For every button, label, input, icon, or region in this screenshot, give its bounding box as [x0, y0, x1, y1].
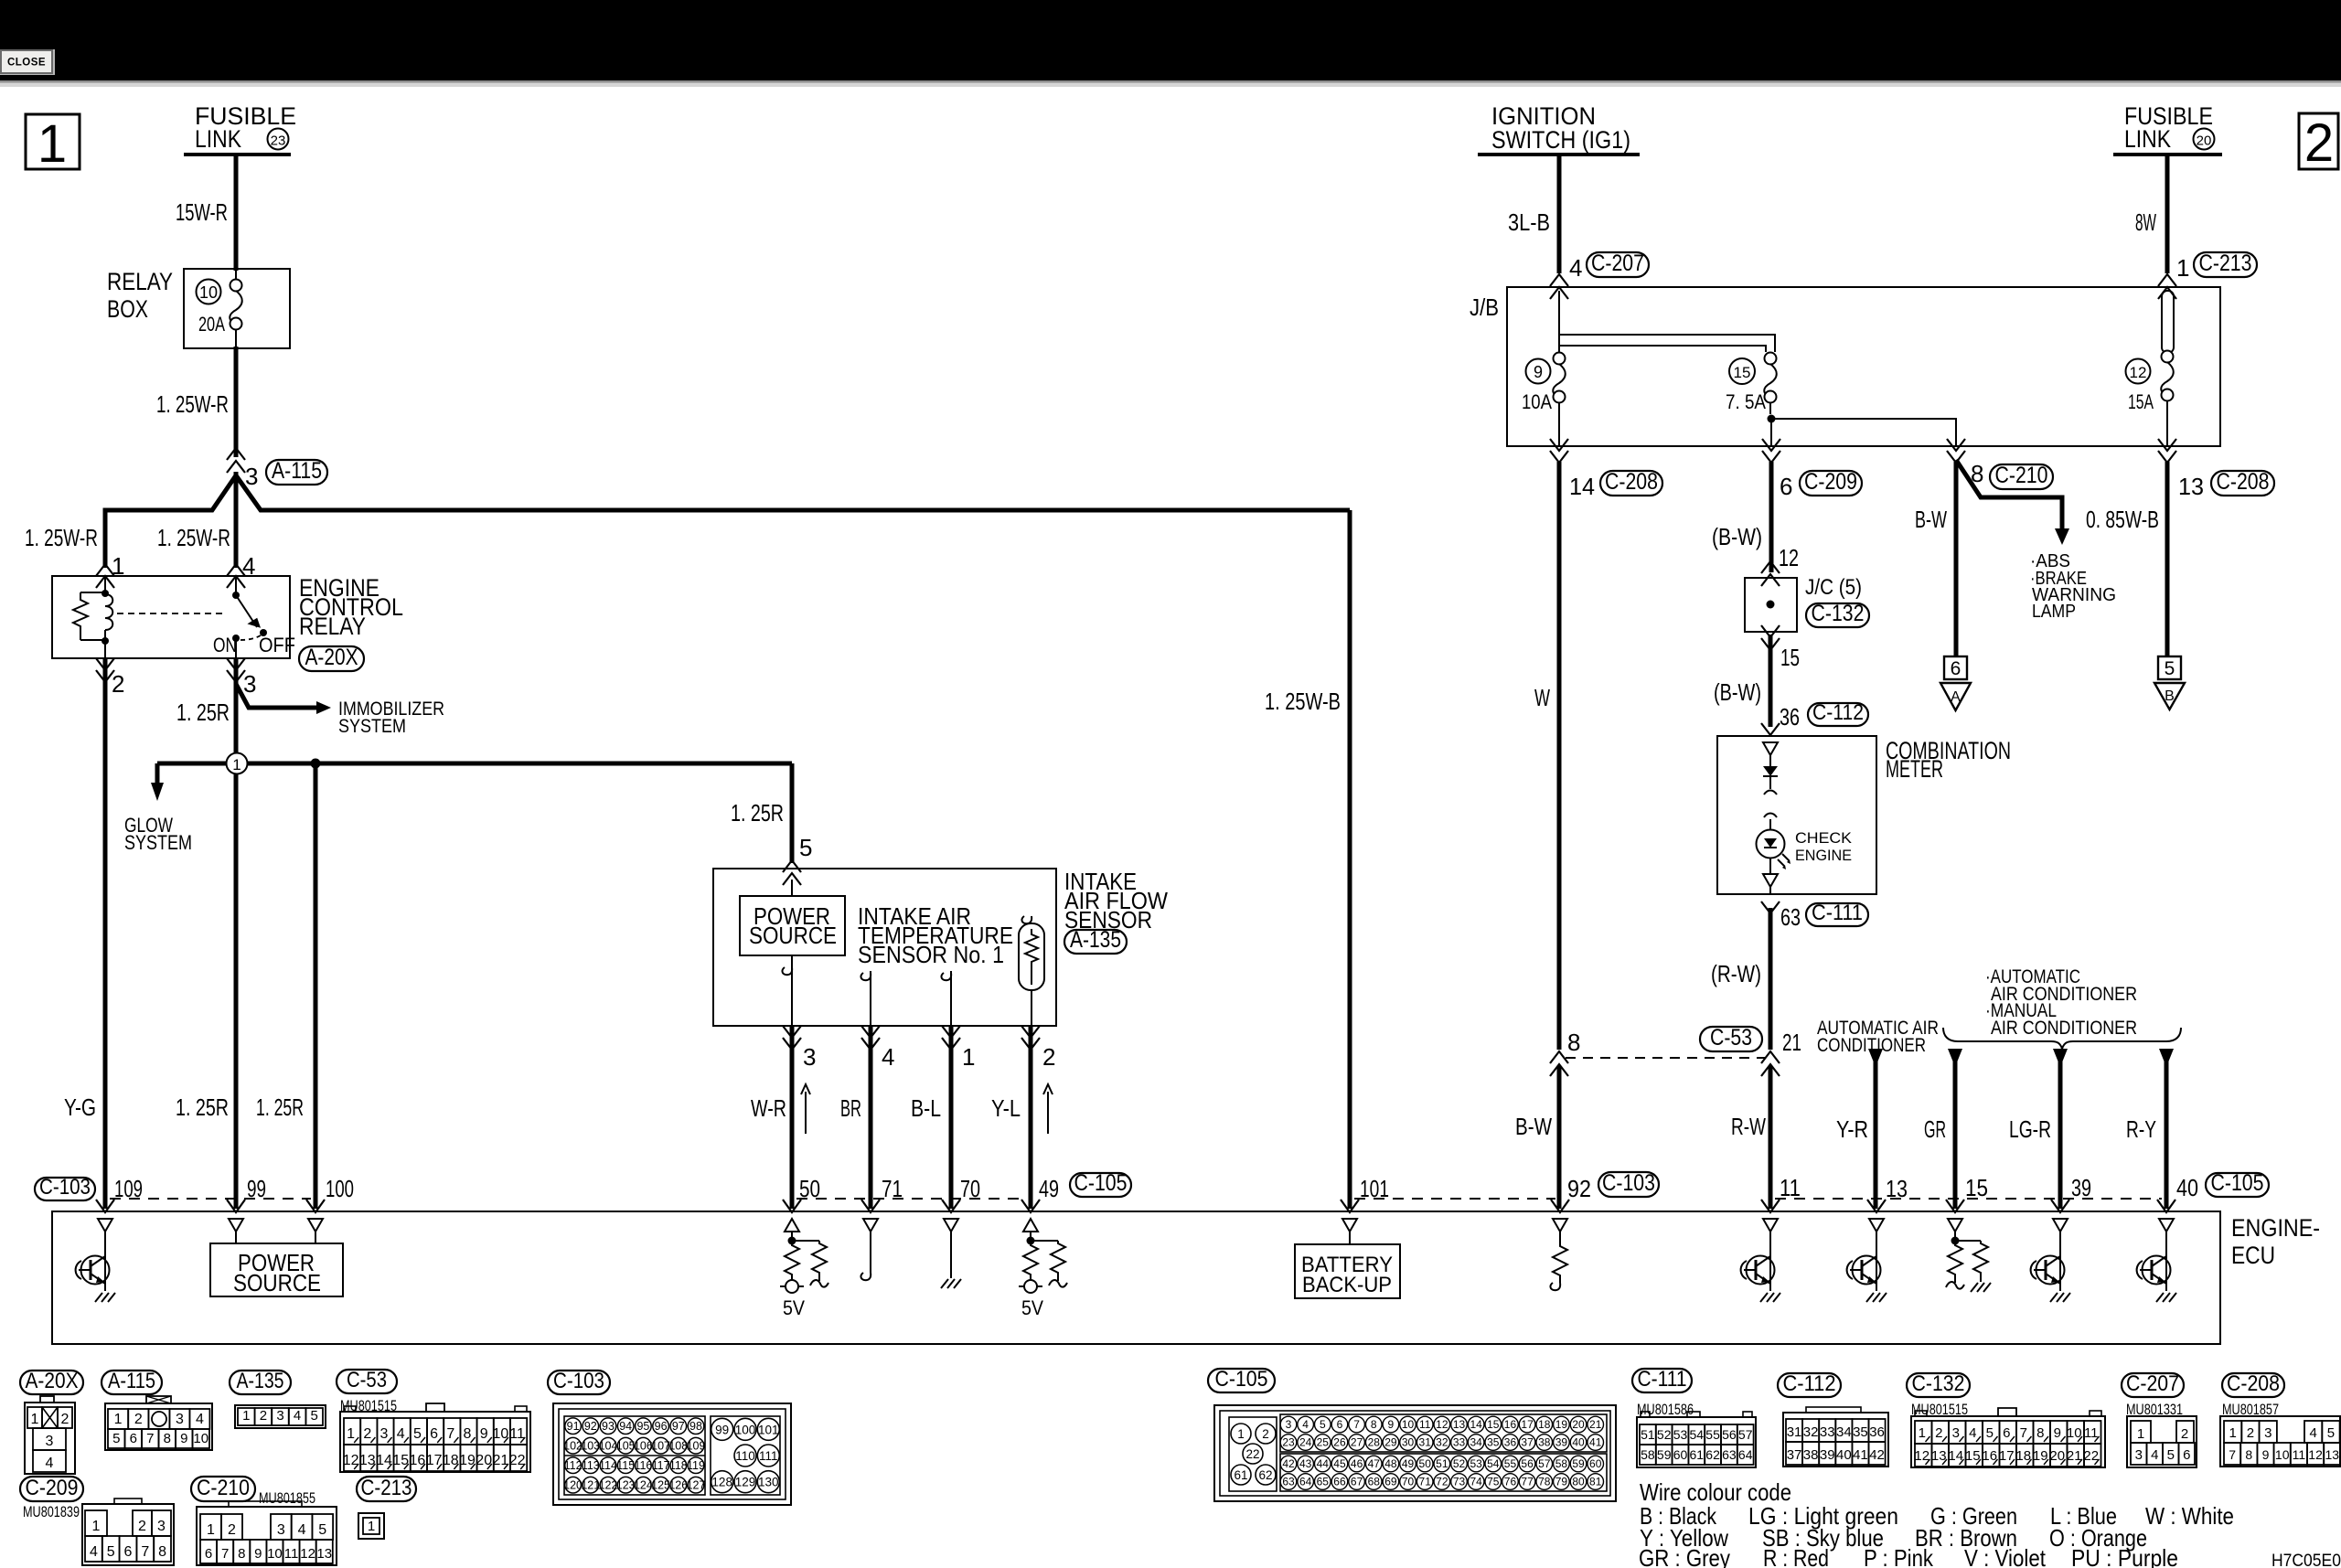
- svg-text:RELAY: RELAY: [107, 268, 173, 295]
- svg-text:PU : Purple: PU : Purple: [2071, 1544, 2178, 1568]
- svg-text:12: 12: [1436, 1418, 1448, 1431]
- svg-text:13: 13: [2178, 473, 2204, 500]
- svg-text:4: 4: [2151, 1447, 2158, 1463]
- svg-text:38: 38: [1538, 1436, 1551, 1449]
- svg-text:RELAY: RELAY: [299, 613, 366, 640]
- svg-text:42: 42: [1869, 1447, 1885, 1463]
- svg-text:31: 31: [1419, 1436, 1432, 1449]
- svg-text:A-135: A-135: [1070, 927, 1121, 953]
- svg-text:2: 2: [2247, 1425, 2254, 1441]
- svg-text:20: 20: [1572, 1418, 1585, 1431]
- svg-text:MU801855: MU801855: [259, 1489, 315, 1507]
- svg-text:56: 56: [1722, 1427, 1737, 1442]
- svg-text:104: 104: [599, 1440, 618, 1453]
- svg-text:36: 36: [1504, 1436, 1517, 1449]
- svg-text:52: 52: [1453, 1457, 1466, 1470]
- svg-text:64: 64: [1299, 1476, 1312, 1488]
- svg-text:60: 60: [1589, 1457, 1602, 1470]
- svg-text:8: 8: [2036, 1425, 2044, 1441]
- svg-text:12: 12: [2130, 364, 2147, 381]
- svg-text:5: 5: [112, 1431, 120, 1446]
- svg-text:4: 4: [46, 1456, 54, 1471]
- svg-text:99: 99: [715, 1423, 729, 1436]
- svg-text:37: 37: [1521, 1436, 1534, 1449]
- svg-text:6: 6: [1951, 658, 1962, 679]
- svg-text:3: 3: [276, 1408, 283, 1424]
- svg-text:11: 11: [1780, 1174, 1801, 1201]
- svg-text:11: 11: [284, 1546, 299, 1562]
- svg-text:C-53: C-53: [1710, 1025, 1752, 1051]
- svg-text:2: 2: [1935, 1425, 1942, 1441]
- svg-text:5: 5: [799, 834, 812, 861]
- svg-text:50: 50: [1419, 1457, 1432, 1470]
- svg-text:50: 50: [799, 1175, 820, 1202]
- svg-text:1: 1: [242, 1408, 250, 1424]
- svg-text:51: 51: [1641, 1427, 1655, 1442]
- svg-text:31: 31: [1787, 1424, 1802, 1440]
- svg-text:1. 25R: 1. 25R: [256, 1093, 304, 1121]
- svg-text:9: 9: [480, 1426, 488, 1442]
- svg-text:5: 5: [311, 1408, 318, 1424]
- svg-text:74: 74: [1470, 1476, 1482, 1488]
- svg-text:MU801839: MU801839: [23, 1503, 80, 1520]
- svg-text:23: 23: [271, 133, 286, 149]
- svg-text:7: 7: [2020, 1425, 2027, 1441]
- svg-text:1. 25W-B: 1. 25W-B: [1265, 688, 1341, 715]
- svg-text:118: 118: [669, 1459, 688, 1472]
- svg-text:24: 24: [1299, 1436, 1312, 1449]
- svg-text:13: 13: [1886, 1175, 1908, 1202]
- svg-text:3: 3: [1952, 1425, 1960, 1441]
- svg-text:63: 63: [1722, 1447, 1737, 1462]
- svg-text:73: 73: [1453, 1476, 1466, 1488]
- svg-text:C-111: C-111: [1812, 901, 1863, 925]
- svg-text:2: 2: [228, 1522, 236, 1538]
- svg-text:9: 9: [2262, 1447, 2270, 1462]
- svg-text:(B-W): (B-W): [1712, 523, 1762, 550]
- svg-text:6: 6: [2003, 1425, 2010, 1441]
- svg-text:117: 117: [652, 1459, 670, 1472]
- svg-text:11: 11: [2084, 1425, 2099, 1441]
- svg-text:92: 92: [1567, 1175, 1591, 1202]
- svg-text:9: 9: [254, 1546, 262, 1562]
- svg-text:B: B: [2165, 688, 2175, 704]
- svg-text:41: 41: [1589, 1436, 1602, 1449]
- svg-text:11: 11: [1419, 1418, 1431, 1431]
- svg-text:5: 5: [318, 1522, 326, 1538]
- svg-text:3: 3: [2135, 1447, 2143, 1463]
- svg-text:109: 109: [114, 1175, 143, 1202]
- svg-text:7: 7: [146, 1431, 154, 1446]
- svg-text:2: 2: [61, 1412, 69, 1427]
- svg-text:H7C05E0: H7C05E0: [2272, 1552, 2341, 1568]
- svg-text:15: 15: [1965, 1174, 1988, 1201]
- svg-text:35: 35: [1487, 1436, 1500, 1449]
- svg-text:C-209: C-209: [1804, 469, 1857, 495]
- svg-text:20A: 20A: [198, 313, 225, 336]
- svg-text:70: 70: [960, 1175, 980, 1202]
- svg-text:A: A: [1951, 689, 1961, 705]
- svg-text:ECU: ECU: [2231, 1242, 2275, 1269]
- svg-text:C-103: C-103: [39, 1175, 91, 1200]
- svg-text:55: 55: [1504, 1457, 1517, 1470]
- svg-text:81: 81: [1589, 1476, 1602, 1488]
- svg-text:51: 51: [1436, 1457, 1448, 1470]
- svg-text:115: 115: [616, 1459, 635, 1472]
- svg-text:32: 32: [1803, 1424, 1819, 1440]
- svg-text:60: 60: [1673, 1447, 1688, 1462]
- svg-text:80: 80: [1572, 1476, 1585, 1488]
- svg-text:12: 12: [1779, 544, 1799, 571]
- svg-text:4: 4: [298, 1522, 306, 1538]
- svg-text:10: 10: [193, 1431, 208, 1446]
- svg-text:C-209: C-209: [26, 1476, 79, 1500]
- svg-text:65: 65: [1317, 1476, 1330, 1488]
- svg-text:C-105: C-105: [1215, 1367, 1268, 1392]
- svg-text:25: 25: [1317, 1436, 1330, 1449]
- svg-text:33: 33: [1453, 1436, 1466, 1449]
- svg-text:3: 3: [277, 1522, 285, 1538]
- svg-text:SENSOR No. 1: SENSOR No. 1: [858, 941, 1004, 968]
- svg-text:2: 2: [134, 1412, 143, 1427]
- svg-text:49: 49: [1402, 1457, 1415, 1470]
- svg-text:10: 10: [267, 1546, 283, 1562]
- svg-text:10: 10: [199, 283, 218, 302]
- svg-text:10A: 10A: [1522, 390, 1552, 413]
- svg-text:A-115: A-115: [108, 1369, 155, 1393]
- svg-text:6: 6: [430, 1426, 438, 1442]
- svg-text:40: 40: [1836, 1447, 1852, 1463]
- svg-text:79: 79: [1555, 1476, 1568, 1488]
- svg-text:101: 101: [1360, 1175, 1389, 1202]
- svg-text:71: 71: [1419, 1476, 1432, 1488]
- svg-text:107: 107: [651, 1440, 670, 1453]
- svg-text:ENGINE: ENGINE: [1795, 847, 1852, 864]
- svg-text:121: 121: [581, 1479, 600, 1492]
- svg-text:12: 12: [2308, 1447, 2323, 1462]
- svg-text:B-L: B-L: [911, 1094, 941, 1122]
- svg-text:15W-R: 15W-R: [176, 198, 228, 226]
- svg-text:5: 5: [107, 1544, 115, 1560]
- svg-text:C-112: C-112: [1783, 1371, 1836, 1396]
- svg-text:0. 85W-B: 0. 85W-B: [2086, 506, 2159, 533]
- svg-text:92: 92: [584, 1420, 597, 1433]
- svg-text:39: 39: [2071, 1174, 2091, 1201]
- svg-text:1. 25R: 1. 25R: [176, 1093, 229, 1121]
- svg-text:5: 5: [2327, 1425, 2335, 1441]
- svg-text:2: 2: [1042, 1043, 1055, 1071]
- svg-text:C-105: C-105: [1074, 1170, 1128, 1196]
- svg-text:1: 1: [962, 1043, 975, 1071]
- svg-text:15: 15: [1734, 364, 1751, 381]
- svg-text:BR: BR: [840, 1094, 861, 1122]
- svg-text:9: 9: [2054, 1425, 2061, 1441]
- svg-text:2: 2: [260, 1408, 267, 1424]
- svg-text:53: 53: [1470, 1457, 1482, 1470]
- svg-text:1: 1: [1919, 1425, 1926, 1441]
- svg-text:8: 8: [158, 1544, 166, 1560]
- svg-text:9: 9: [180, 1431, 187, 1446]
- svg-text:9: 9: [1388, 1418, 1395, 1431]
- svg-text:13: 13: [2325, 1447, 2340, 1462]
- svg-text:5: 5: [2167, 1447, 2175, 1463]
- svg-text:23: 23: [1282, 1436, 1295, 1449]
- svg-text:LINK: LINK: [2124, 125, 2171, 153]
- svg-text:102: 102: [563, 1440, 583, 1453]
- svg-text:116: 116: [634, 1459, 652, 1472]
- svg-text:LAMP: LAMP: [2032, 602, 2076, 622]
- svg-text:1: 1: [232, 756, 241, 773]
- svg-text:AIR CONDITIONER: AIR CONDITIONER: [1991, 1018, 2137, 1039]
- svg-text:8: 8: [1371, 1418, 1377, 1431]
- svg-text:A-115: A-115: [272, 458, 322, 484]
- svg-text:C-132: C-132: [1812, 601, 1865, 626]
- svg-text:METER: METER: [1886, 755, 1943, 783]
- svg-text:98: 98: [689, 1420, 702, 1433]
- svg-text:MU801586: MU801586: [1637, 1401, 1694, 1418]
- svg-text:CHECK: CHECK: [1795, 829, 1853, 847]
- svg-text:55: 55: [1705, 1427, 1720, 1442]
- svg-text:28: 28: [1368, 1436, 1381, 1449]
- svg-text:4: 4: [1569, 254, 1582, 282]
- svg-text:44: 44: [1317, 1457, 1330, 1470]
- svg-text:39: 39: [1555, 1436, 1568, 1449]
- svg-text:75: 75: [1487, 1476, 1500, 1488]
- svg-text:54: 54: [1487, 1457, 1500, 1470]
- svg-text:47: 47: [1368, 1457, 1381, 1470]
- svg-text:(B-W): (B-W): [1714, 678, 1761, 706]
- svg-text:68: 68: [1368, 1476, 1381, 1488]
- svg-text:C-112: C-112: [1812, 700, 1864, 725]
- svg-text:10: 10: [1402, 1418, 1415, 1431]
- svg-text:38: 38: [1803, 1447, 1819, 1463]
- svg-text:1. 25R: 1. 25R: [731, 799, 784, 827]
- svg-text:1. 25R: 1. 25R: [176, 699, 230, 726]
- svg-text:14: 14: [1470, 1418, 1482, 1431]
- svg-text:4: 4: [1969, 1425, 1976, 1441]
- svg-text:6: 6: [1780, 473, 1792, 500]
- svg-text:34: 34: [1836, 1424, 1852, 1440]
- svg-text:17: 17: [1521, 1418, 1534, 1431]
- svg-text:7: 7: [2229, 1447, 2236, 1462]
- svg-text:67: 67: [1351, 1476, 1363, 1488]
- svg-text:7: 7: [221, 1546, 229, 1562]
- svg-text:3: 3: [243, 670, 256, 698]
- svg-text:33: 33: [1820, 1424, 1835, 1440]
- svg-text:1: 1: [1237, 1427, 1245, 1441]
- svg-text:128: 128: [711, 1476, 732, 1489]
- svg-text:1: 1: [207, 1522, 215, 1538]
- svg-text:C-207: C-207: [1591, 251, 1644, 276]
- svg-text:95: 95: [636, 1420, 649, 1433]
- svg-text:39: 39: [1820, 1447, 1835, 1463]
- svg-text:63: 63: [1282, 1476, 1295, 1488]
- svg-text:43: 43: [1299, 1457, 1312, 1470]
- svg-text:R : Red: R : Red: [1763, 1544, 1829, 1568]
- svg-text:7: 7: [1353, 1418, 1360, 1431]
- svg-text:6: 6: [124, 1544, 133, 1560]
- svg-text:59: 59: [1657, 1447, 1672, 1462]
- svg-text:129: 129: [735, 1476, 756, 1489]
- svg-text:J/C (5): J/C (5): [1805, 575, 1862, 600]
- svg-text:5: 5: [413, 1426, 422, 1442]
- svg-text:3L-B: 3L-B: [1508, 208, 1550, 236]
- svg-text:30: 30: [1402, 1436, 1415, 1449]
- svg-text:20: 20: [2197, 133, 2212, 149]
- svg-text:4: 4: [90, 1544, 98, 1560]
- svg-text:29: 29: [1384, 1436, 1397, 1449]
- svg-text:A-135: A-135: [237, 1369, 284, 1393]
- svg-text:106: 106: [634, 1440, 653, 1453]
- svg-text:6: 6: [2183, 1447, 2190, 1463]
- svg-text:36: 36: [1780, 703, 1800, 731]
- svg-text:49: 49: [1039, 1175, 1059, 1202]
- svg-text:CLOSE: CLOSE: [7, 58, 46, 69]
- svg-text:59: 59: [1572, 1457, 1585, 1470]
- svg-text:46: 46: [1351, 1457, 1363, 1470]
- svg-text:C-207: C-207: [2126, 1371, 2179, 1396]
- svg-text:111: 111: [759, 1449, 778, 1463]
- svg-text:4: 4: [397, 1426, 405, 1442]
- svg-text:66: 66: [1333, 1476, 1346, 1488]
- svg-text:127: 127: [687, 1479, 706, 1492]
- svg-text:C-103: C-103: [1602, 1170, 1655, 1196]
- svg-text:78: 78: [1538, 1476, 1551, 1488]
- svg-text:2: 2: [112, 670, 124, 698]
- svg-text:10: 10: [2275, 1447, 2290, 1462]
- svg-text:4: 4: [882, 1043, 894, 1071]
- svg-text:BOX: BOX: [107, 295, 148, 323]
- svg-text:3: 3: [157, 1519, 166, 1534]
- svg-text:1: 1: [37, 114, 67, 174]
- svg-text:13: 13: [316, 1546, 332, 1562]
- svg-text:124: 124: [634, 1479, 653, 1492]
- svg-text:14: 14: [1569, 473, 1595, 500]
- svg-text:SWITCH (IG1): SWITCH (IG1): [1491, 126, 1630, 154]
- svg-text:3: 3: [1286, 1418, 1292, 1431]
- svg-text:P : Pink: P : Pink: [1864, 1544, 1934, 1568]
- svg-text:5V: 5V: [783, 1296, 805, 1319]
- svg-text:LINK: LINK: [195, 125, 241, 153]
- svg-text:4: 4: [294, 1408, 301, 1424]
- svg-text:54: 54: [1690, 1427, 1705, 1442]
- svg-text:SYSTEM: SYSTEM: [124, 831, 192, 854]
- svg-text:8: 8: [464, 1426, 472, 1442]
- svg-text:GR: GR: [1924, 1115, 1946, 1143]
- svg-text:R-Y: R-Y: [2126, 1115, 2156, 1143]
- svg-text:4: 4: [1302, 1418, 1309, 1431]
- svg-text:37: 37: [1787, 1447, 1802, 1463]
- svg-text:4: 4: [196, 1412, 204, 1427]
- svg-text:8: 8: [164, 1431, 171, 1446]
- svg-text:SOURCE: SOURCE: [749, 922, 837, 949]
- svg-text:A-20X: A-20X: [305, 645, 358, 670]
- svg-text:LG-R: LG-R: [2009, 1115, 2051, 1143]
- svg-text:8: 8: [238, 1546, 245, 1562]
- svg-text:93: 93: [602, 1420, 615, 1433]
- svg-text:91: 91: [567, 1420, 580, 1433]
- svg-text:3: 3: [2264, 1425, 2272, 1441]
- svg-text:35: 35: [1853, 1424, 1868, 1440]
- svg-text:5: 5: [2165, 658, 2175, 679]
- svg-text:7: 7: [446, 1426, 454, 1442]
- svg-text:1: 1: [31, 1412, 39, 1427]
- svg-text:6: 6: [130, 1431, 137, 1446]
- svg-text:100: 100: [735, 1423, 756, 1436]
- svg-text:5: 5: [1986, 1425, 1994, 1441]
- svg-text:3: 3: [380, 1426, 389, 1442]
- svg-text:57: 57: [1538, 1457, 1551, 1470]
- svg-text:11: 11: [2293, 1447, 2306, 1462]
- svg-text:26: 26: [1333, 1436, 1346, 1449]
- svg-text:1: 1: [114, 1412, 123, 1427]
- svg-text:1. 25W-R: 1. 25W-R: [157, 524, 230, 551]
- svg-text:7. 5A: 7. 5A: [1726, 390, 1766, 413]
- svg-text:1: 1: [368, 1519, 375, 1534]
- svg-text:Y-R: Y-R: [1836, 1115, 1868, 1143]
- svg-text:70: 70: [1402, 1476, 1415, 1488]
- svg-text:114: 114: [599, 1459, 617, 1472]
- svg-text:41: 41: [1853, 1447, 1868, 1463]
- svg-text:42: 42: [1282, 1457, 1295, 1470]
- svg-text:64: 64: [1738, 1447, 1753, 1462]
- svg-text:Y-L: Y-L: [991, 1094, 1021, 1122]
- svg-text:53: 53: [1673, 1427, 1688, 1442]
- svg-text:15: 15: [1487, 1418, 1500, 1431]
- svg-text:1: 1: [2176, 254, 2189, 282]
- svg-text:1: 1: [2229, 1425, 2236, 1441]
- svg-text:3: 3: [46, 1434, 54, 1449]
- svg-text:130: 130: [758, 1476, 779, 1489]
- svg-text:110: 110: [735, 1449, 755, 1463]
- svg-text:1: 1: [347, 1426, 355, 1442]
- svg-text:B-W: B-W: [1515, 1113, 1552, 1140]
- svg-text:2: 2: [138, 1519, 146, 1534]
- svg-text:3: 3: [176, 1412, 184, 1427]
- svg-text:1. 25W-R: 1. 25W-R: [25, 524, 98, 551]
- svg-text:32: 32: [1436, 1436, 1448, 1449]
- svg-text:40: 40: [2176, 1174, 2198, 1201]
- svg-text:40: 40: [1572, 1436, 1585, 1449]
- svg-text:4: 4: [2309, 1425, 2316, 1441]
- svg-text:C-132: C-132: [1912, 1371, 1965, 1396]
- svg-text:7: 7: [141, 1544, 149, 1560]
- svg-text:V : Violet: V : Violet: [1964, 1544, 2047, 1568]
- svg-text:3: 3: [803, 1043, 816, 1071]
- svg-text:34: 34: [1470, 1436, 1482, 1449]
- svg-text:21: 21: [1589, 1418, 1602, 1431]
- svg-text:W : White: W : White: [2145, 1502, 2234, 1530]
- svg-text:63: 63: [1780, 903, 1801, 931]
- svg-text:C-103: C-103: [553, 1369, 604, 1393]
- svg-text:94: 94: [619, 1420, 632, 1433]
- svg-text:5V: 5V: [1021, 1296, 1043, 1319]
- svg-text:SOURCE: SOURCE: [233, 1269, 321, 1296]
- svg-text:2: 2: [1262, 1427, 1269, 1441]
- svg-text:OFF: OFF: [259, 634, 295, 656]
- svg-text:A-20X: A-20X: [26, 1369, 79, 1393]
- svg-text:71: 71: [882, 1175, 903, 1202]
- svg-text:8: 8: [2245, 1447, 2252, 1462]
- svg-text:58: 58: [1555, 1457, 1568, 1470]
- svg-text:BACK-UP: BACK-UP: [1302, 1273, 1392, 1297]
- svg-text:C-213: C-213: [2199, 251, 2252, 276]
- svg-text:122: 122: [599, 1479, 618, 1492]
- svg-text:100: 100: [326, 1175, 354, 1202]
- svg-text:18: 18: [1538, 1418, 1551, 1431]
- svg-text:36: 36: [1869, 1424, 1885, 1440]
- svg-text:C-210: C-210: [1995, 463, 2048, 488]
